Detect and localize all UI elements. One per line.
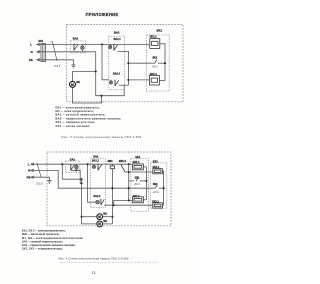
wire motor feeder <box>82 179 97 224</box>
node bus-KM1.1 <box>128 171 130 173</box>
svg-text:ЕК1.2: ЕК1.2 <box>133 195 140 198</box>
svg-text:M1: M1 <box>103 213 107 216</box>
node SA1 lamp <box>75 169 77 171</box>
svg-text:Рис. 3 Схема электрическая зав: Рис. 3 Схема электрическая завесы ПКЗ 3.… <box>61 135 141 139</box>
thermal switch SK1 (bottom) <box>129 177 147 186</box>
svg-text:SK1: SK1 <box>152 57 157 60</box>
thermal switch SK2 <box>152 183 163 194</box>
wire BA2.1 aux out <box>118 51 129 85</box>
wire SA2.2 out <box>104 204 153 206</box>
wire SA2.2 branch to EK1.2 <box>114 200 133 205</box>
wire PE (bottom) <box>31 177 50 180</box>
svg-text:BA2.1: BA2.1 <box>114 38 122 41</box>
node M1 feed <box>81 216 83 218</box>
node BA2.2 out <box>127 79 129 81</box>
svg-text:ПРИЛОЖЕНИЕ: ПРИЛОЖЕНИЕ <box>86 12 119 17</box>
contact KM1.1 <box>119 160 127 172</box>
connector XP1 <box>38 39 45 62</box>
wire motor bus <box>72 70 95 72</box>
svg-text:PE: PE <box>29 58 33 62</box>
svg-text:КМ1: КМ1 <box>108 160 114 163</box>
node SA2.2 branch <box>113 204 115 206</box>
wire SK1 feed <box>128 62 152 64</box>
cable marker 3x1,5 <box>52 42 57 61</box>
svg-text:+50 C: +50 C <box>152 65 159 68</box>
motor M1 (bottom) <box>97 213 113 220</box>
lamp in BA2.2 <box>109 80 112 84</box>
svg-text:КМ1.1: КМ1.1 <box>119 160 127 163</box>
node M1 return <box>111 216 113 218</box>
wire EK2.1 out <box>162 171 163 205</box>
heater block EK2 <box>151 159 167 209</box>
wire L (bottom) <box>31 163 132 165</box>
svg-text:N: N <box>31 50 33 54</box>
svg-text:ХР1 – вилка сетевая;: ХР1 – вилка сетевая; <box>55 124 90 128</box>
wire EK1.1 out <box>143 167 146 200</box>
svg-text:+10 C: +10 C <box>152 191 159 194</box>
wire SA1 lamp return <box>71 170 82 183</box>
node bus-N <box>128 187 130 189</box>
lamp in BA2.1 <box>109 44 112 48</box>
wire N <box>37 52 124 96</box>
lamp in SA2.1 <box>92 164 95 168</box>
heater block EK1 (bottom) <box>131 155 149 211</box>
svg-text:XP1: XP1 <box>38 39 43 43</box>
svg-text:5x2,5: 5x2,5 <box>36 181 43 185</box>
wire PE <box>37 60 74 65</box>
svg-text:EK1: EK1 <box>157 28 163 32</box>
svg-text:L: L <box>28 162 30 166</box>
motor M2 (bottom) <box>97 220 113 227</box>
enclosure dashed boundary (top schematic) <box>66 25 183 102</box>
switch BA2.1 <box>114 38 122 51</box>
svg-text:SA2.1: SA2.1 <box>92 160 100 163</box>
node joint <box>81 182 83 184</box>
ground PE <box>71 65 75 68</box>
wire KM1 coil to motors bus <box>111 169 113 224</box>
wire BA2.2 out elbow <box>119 84 129 86</box>
node N-coil <box>111 187 113 189</box>
wire L <box>37 43 150 45</box>
lamp in SA2.2 <box>96 201 99 204</box>
node N-motor <box>95 70 97 72</box>
wire M1 feed <box>82 216 97 218</box>
svg-text:+50 C: +50 C <box>134 183 141 186</box>
svg-text:Рис. 4 Схема электрическая зав: Рис. 4 Схема электрическая завесы ПКЗ 2-… <box>59 257 129 261</box>
cable marker 5x2,5 <box>37 163 41 177</box>
node L branch2 <box>86 163 88 165</box>
thermal switch SK1 <box>152 57 165 69</box>
switch SA2.2 <box>93 195 104 205</box>
svg-text:M: M <box>98 222 101 226</box>
lamp in BA1 <box>81 44 84 51</box>
svg-text:BA1: BA1 <box>73 36 79 40</box>
svg-text:PE: PE <box>27 175 31 179</box>
switch BA2.2 <box>113 73 121 86</box>
node L branch1 <box>61 163 63 165</box>
node SK1 out (bottom) <box>145 180 147 182</box>
contactor coil KM1 <box>108 160 115 169</box>
node motor return <box>100 95 102 97</box>
wire KM1.1 out to EK2.1 <box>125 171 153 173</box>
node SK1 feed <box>127 62 129 64</box>
svg-text:M: M <box>71 83 74 87</box>
heater EK1.1 (bottom) <box>132 161 143 170</box>
switch SA2.1 <box>92 160 102 171</box>
node bus-EK1.2 <box>128 199 130 201</box>
wire EK1.1 out <box>160 44 165 81</box>
node motor feed <box>81 178 83 180</box>
svg-text:N: N <box>28 169 30 173</box>
heater EK2.2 <box>152 201 162 209</box>
heater EK1.2 (bottom) <box>132 195 146 203</box>
wire SA2.2 feed <box>88 164 96 202</box>
svg-text:SК1, SК2 – терморегуляторы;: SК1, SК2 – терморегуляторы; <box>22 247 63 251</box>
wire heater bus vertical <box>129 164 133 200</box>
svg-text:SA2: SA2 <box>93 155 99 159</box>
wire N (bottom) <box>31 170 153 188</box>
heater EK1.2 <box>149 73 165 85</box>
svg-text:SA2.2: SA2.2 <box>93 195 101 198</box>
node L-BA2 branch <box>101 43 103 45</box>
ground PE (bottom) <box>47 181 51 184</box>
svg-text:M: M <box>98 215 101 219</box>
motor M1 <box>70 71 102 103</box>
svg-text:L: L <box>30 43 32 47</box>
heater block EK1 <box>147 28 170 91</box>
switch block BA2 <box>109 30 125 89</box>
svg-text:13: 13 <box>92 271 96 275</box>
wire to BA2.2 <box>102 44 109 79</box>
heater EK1.1 <box>150 36 160 49</box>
svg-text:BA2: BA2 <box>114 30 120 34</box>
wire L branch1 down <box>62 164 81 179</box>
node heater bus top <box>128 163 130 165</box>
faint artifact line <box>60 261 158 263</box>
svg-text:3x1,5: 3x1,5 <box>54 64 61 68</box>
node SK2 out <box>163 187 165 189</box>
lamp in SA1 <box>75 164 78 169</box>
switch block SA2 <box>91 155 106 208</box>
wire to EK1.2 <box>128 79 149 81</box>
heater EK2.1 <box>153 166 163 174</box>
switch SA1 <box>65 157 79 172</box>
enclosure dashed boundary (bottom schematic) <box>47 152 171 226</box>
svg-text:BA2.2: BA2.2 <box>113 73 121 76</box>
node SK1 out <box>164 62 166 64</box>
switch BA1 <box>71 36 86 53</box>
svg-text:M2: M2 <box>103 220 107 223</box>
svg-text:M1: M1 <box>76 80 80 84</box>
